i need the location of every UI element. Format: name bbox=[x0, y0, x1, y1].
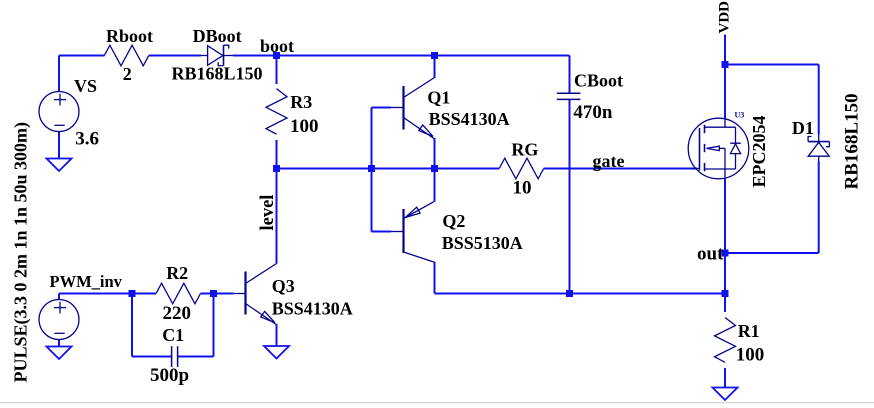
wire VS top to Rboot bbox=[59, 56, 105, 92]
wire junction to Q3 base bbox=[201, 293, 234, 295]
value BSS5130A of Q2 bbox=[442, 233, 523, 253]
wire bottom rail bbox=[435, 293, 726, 295]
wire Rboot to DBoot bbox=[149, 55, 201, 57]
wire VDD node to EPC drain bbox=[724, 65, 726, 120]
svg-text:RB168L150: RB168L150 bbox=[842, 93, 863, 189]
resistor R2 bbox=[156, 283, 201, 304]
label EPC2054 bbox=[749, 116, 769, 188]
wire DBoot to boot node and top rail bbox=[233, 55, 570, 57]
node gate junction bbox=[431, 165, 438, 172]
svg-text:R3: R3 bbox=[290, 92, 312, 112]
label R2 bbox=[166, 263, 188, 283]
svg-text:100: 100 bbox=[736, 344, 765, 365]
svg-text:220: 220 bbox=[163, 303, 192, 324]
svg-text:level: level bbox=[258, 195, 278, 231]
label RG bbox=[511, 140, 538, 160]
wire gate node to RG bbox=[435, 168, 500, 170]
label Rboot bbox=[106, 26, 153, 46]
svg-text:gate: gate bbox=[593, 151, 625, 171]
wire Q2 emitter to gate node bbox=[434, 169, 436, 202]
capacitor C1 bbox=[172, 346, 178, 367]
svg-text:500p: 500p bbox=[150, 365, 189, 386]
wire rail to R1 bbox=[724, 294, 726, 313]
label CBoot bbox=[574, 71, 623, 91]
svg-text:C1: C1 bbox=[162, 325, 184, 345]
value RB168L150 of DBoot bbox=[172, 64, 263, 84]
net label level bbox=[258, 195, 278, 231]
ground VS bbox=[47, 159, 72, 172]
wire C1 branch right bbox=[178, 294, 214, 357]
svg-text:3.6: 3.6 bbox=[75, 129, 99, 150]
voltage source PWM_inv bbox=[39, 300, 79, 340]
net label gate bbox=[593, 151, 625, 171]
label Q2 bbox=[442, 211, 465, 231]
wire Q2 base lead bbox=[372, 231, 392, 233]
node boot junction bbox=[273, 52, 280, 59]
svg-text:BSS5130A: BSS5130A bbox=[442, 233, 523, 253]
value RB168L150 of D1 bbox=[842, 93, 863, 189]
wire out to rail bbox=[724, 253, 726, 294]
svg-text:PWM_inv: PWM_inv bbox=[50, 272, 123, 291]
label Q1 bbox=[427, 88, 450, 108]
net label VDD bbox=[717, 1, 733, 34]
label C1 bbox=[162, 325, 184, 345]
label VS bbox=[74, 76, 97, 96]
diode D1 bbox=[808, 135, 829, 162]
voltage source VS bbox=[39, 92, 79, 132]
wire level rail down to Q3 collector bbox=[276, 169, 278, 264]
wire Q2 collector down bbox=[434, 262, 436, 294]
node R2 left junction bbox=[129, 290, 136, 297]
wire VDD node to D1 branch bbox=[725, 65, 819, 135]
svg-text:EPC2054: EPC2054 bbox=[749, 116, 769, 188]
MOSFET U1 EPC2054 bbox=[688, 118, 749, 179]
node VDD junction bbox=[722, 61, 729, 68]
transistor Q3 bbox=[233, 264, 277, 325]
wire Q1 base lead bbox=[372, 107, 392, 109]
window bottom divider line bbox=[0, 402, 874, 403]
resistor R3 bbox=[266, 89, 287, 135]
wire top rail down to CBoot bbox=[569, 56, 571, 93]
spice directive PULSE bbox=[11, 122, 32, 383]
value 2 bbox=[123, 64, 132, 84]
transistor Q2 bbox=[391, 201, 435, 262]
value 3.6 bbox=[75, 129, 99, 150]
label R1 bbox=[738, 321, 760, 341]
wire EPC source to out bbox=[724, 179, 726, 253]
wire RG to EPC gate bbox=[544, 168, 697, 170]
svg-text:U3: U3 bbox=[735, 111, 745, 120]
label D1 bbox=[792, 118, 814, 138]
svg-text:2: 2 bbox=[123, 64, 132, 84]
value BSS4130A of Q3 bbox=[272, 298, 353, 318]
svg-text:Q3: Q3 bbox=[272, 276, 295, 296]
svg-text:Q2: Q2 bbox=[442, 211, 465, 231]
wire PWM source to ground bbox=[58, 340, 60, 347]
pin label U3 bbox=[735, 111, 745, 120]
svg-text:VS: VS bbox=[74, 76, 97, 96]
wire C1 branch left bbox=[132, 294, 171, 357]
capacitor CBoot bbox=[557, 93, 581, 99]
resistor Rboot bbox=[104, 45, 149, 66]
node base rail junction bbox=[368, 165, 375, 172]
node R2 right junction bbox=[210, 290, 217, 297]
wire VS bottom to ground bbox=[58, 132, 60, 159]
svg-text:10: 10 bbox=[513, 178, 532, 199]
label Q3 bbox=[272, 276, 295, 296]
wire Q1 collector bbox=[434, 56, 436, 79]
svg-text:boot: boot bbox=[260, 36, 294, 56]
svg-text:BSS4130A: BSS4130A bbox=[429, 109, 510, 129]
wire Q3 emitter to ground bbox=[276, 324, 278, 346]
svg-text:VDD: VDD bbox=[717, 1, 733, 34]
value 10 of RG bbox=[513, 178, 532, 199]
wire D1 to out row bbox=[725, 161, 819, 253]
svg-text:D1: D1 bbox=[792, 118, 814, 138]
node Q1 collector junction bbox=[431, 52, 438, 59]
svg-text:Rboot: Rboot bbox=[106, 26, 153, 46]
svg-text:out: out bbox=[697, 244, 724, 265]
svg-text:Q1: Q1 bbox=[427, 88, 450, 108]
wire Q1 base rail vertical bbox=[371, 108, 373, 232]
label PWM_inv bbox=[50, 272, 123, 291]
svg-text:100: 100 bbox=[290, 116, 319, 137]
svg-text:RG: RG bbox=[511, 140, 538, 160]
svg-text:R2: R2 bbox=[166, 263, 188, 283]
wire PWM to R2 bbox=[59, 294, 132, 300]
node out-rail junction bbox=[722, 290, 729, 297]
value 100 of R3 bbox=[290, 116, 319, 137]
resistor RG bbox=[499, 158, 544, 179]
label R3 bbox=[290, 92, 312, 112]
svg-text:BSS4130A: BSS4130A bbox=[272, 298, 353, 318]
value 220 of R2 bbox=[163, 303, 192, 324]
svg-text:CBoot: CBoot bbox=[574, 71, 623, 91]
value 100 of R1 bbox=[736, 344, 765, 365]
transistor Q1 bbox=[391, 78, 435, 139]
label DBoot bbox=[193, 26, 242, 46]
net label boot bbox=[260, 36, 294, 56]
wire mid rail boot-col to gate node bbox=[277, 168, 435, 170]
svg-text:DBoot: DBoot bbox=[193, 26, 242, 46]
net label out bbox=[697, 244, 724, 265]
wire CBoot bottom to lower rail bbox=[569, 100, 571, 294]
value BSS4130A of Q1 bbox=[429, 109, 510, 129]
value 500p of C1 bbox=[150, 365, 189, 386]
node level junction bbox=[273, 165, 280, 172]
svg-text:470n: 470n bbox=[573, 102, 613, 123]
wire Q1 emitter to gate node bbox=[434, 138, 436, 169]
wire R1 to ground bbox=[724, 368, 726, 388]
svg-text:PULSE(3.3 0 2m 1n 1n 50u 300m): PULSE(3.3 0 2m 1n 1n 50u 300m) bbox=[11, 122, 32, 383]
value 470n of CBoot bbox=[573, 102, 613, 123]
ground Q3 emitter bbox=[264, 346, 289, 359]
wire VDD to node bbox=[724, 35, 726, 65]
node out junction bbox=[722, 250, 729, 257]
node CBoot-rail junction bbox=[566, 290, 573, 297]
diode DBoot bbox=[201, 45, 233, 65]
ground R1 bbox=[713, 388, 738, 401]
resistor R1 bbox=[715, 318, 736, 363]
wire R3 to level junction bbox=[276, 140, 278, 169]
wire R2 to Q3 base junction bbox=[132, 293, 156, 295]
svg-text:R1: R1 bbox=[738, 321, 760, 341]
ground PWM_inv bbox=[47, 347, 72, 360]
svg-text:RB168L150: RB168L150 bbox=[172, 64, 263, 84]
wire boot to R3 bbox=[276, 56, 278, 85]
